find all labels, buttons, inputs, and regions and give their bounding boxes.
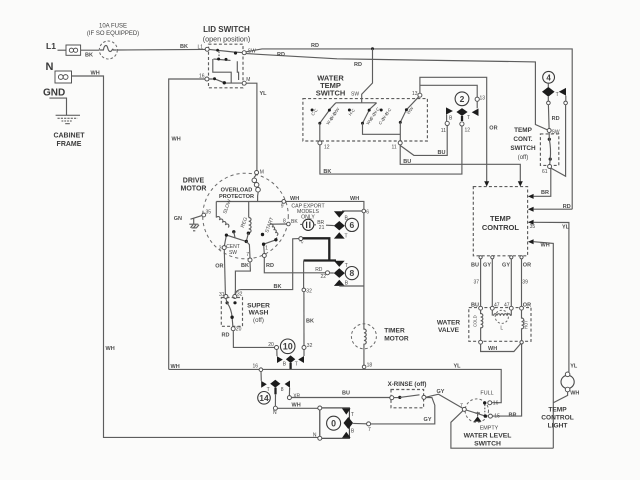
terminal 22 [326,271,330,275]
svg-text:18: 18 [367,362,373,368]
connector 8 circle [345,267,358,280]
svg-text:SWITCH: SWITCH [510,145,536,152]
svg-text:SWITCH: SWITCH [474,440,501,447]
x-rinse dashed enclosure [391,390,424,408]
svg-text:16: 16 [493,401,499,407]
reg winding end dot [247,232,250,235]
terminal 47 left [490,306,494,310]
svg-text:RD: RD [354,62,362,68]
svg-text:6: 6 [366,209,369,215]
connector 6 node circle [362,209,366,213]
node 32 circle [302,288,306,292]
svg-text:CONTROL: CONTROL [541,415,574,422]
connector 8 T flag [334,261,345,267]
svg-text:HOT: HOT [523,320,528,329]
wire L1 to fuse, BK [81,49,100,51]
hot solenoid coil [522,310,524,340]
svg-text:RD: RD [563,204,571,210]
wire lid SW lower run (RD) to temp cont switch [246,54,548,130]
svg-text:T: T [295,361,298,367]
svg-text:VALVE: VALVE [438,327,460,334]
svg-text:TEMP: TEMP [514,127,532,134]
wire switch3 to terminal 11 [399,122,401,141]
reg winding coil [249,217,251,232]
wire 1 to 22 (RD) [264,258,325,273]
lid switch dashed enclosure [209,44,244,88]
wire T flag down to 61 junction [551,96,566,177]
wire 35 to temp control light (YL) [534,222,569,372]
terminal 11 of connector 2 [445,121,449,125]
terminal at zero box bottom left [318,436,322,440]
svg-text:BK: BK [85,52,93,58]
cold solenoid coil [481,310,483,340]
svg-text:9: 9 [281,204,284,210]
svg-text:7: 7 [246,252,249,258]
junction dot [234,51,237,54]
svg-text:TEMP: TEMP [490,214,511,223]
svg-text:4: 4 [546,73,551,82]
wire lid SW to right side (RD) [246,49,572,209]
svg-text:WATER LEVEL: WATER LEVEL [464,432,512,439]
svg-text:OR: OR [489,126,497,132]
svg-text:T: T [345,234,348,240]
terminal at water valve hot [520,306,524,310]
connector 4 pin circles [547,101,551,105]
wire drop to water temp switch SW [362,49,373,103]
svg-text:GY: GY [483,263,491,269]
connector 0 B flag [342,432,351,438]
terminal 9 of drive motor [282,200,286,204]
svg-text:SWITCH: SWITCH [316,89,346,98]
svg-text:16: 16 [252,364,258,370]
svg-text:1: 1 [265,246,268,252]
svg-text:12: 12 [324,145,330,151]
terminal N [273,406,277,410]
contact dot 15 [484,414,487,417]
svg-text:GY: GY [437,389,445,395]
x-rinse blade [394,395,420,398]
connector 4 stem [547,83,549,87]
wire fuse to lid switch L1, BK [117,48,205,51]
svg-text:7: 7 [460,403,463,409]
svg-text:BK: BK [274,284,282,290]
svg-text:(open position): (open position) [203,35,251,44]
connector 14 stem to N [274,388,276,395]
empty diaphragm symbol [474,412,482,422]
svg-text:8: 8 [281,387,284,393]
connector 10 circle [280,339,295,354]
terminal 35 of drive motor [202,213,206,217]
svg-text:(IF SO EQUIPPED): (IF SO EQUIPPED) [87,31,139,37]
svg-text:WH: WH [541,243,550,249]
terminal 8 (cap lead) [287,222,291,226]
svg-text:L1: L1 [46,41,56,51]
svg-text:WATER: WATER [437,320,461,327]
connector 4 diamond [542,87,555,97]
temp control bottom terminal GY 1 [491,256,494,259]
svg-text:WH: WH [290,196,299,202]
node 16 on main bus [259,368,263,372]
super wash dashed enclosure [221,298,242,327]
svg-text:BK: BK [291,219,298,225]
terminal 47 right [509,306,513,310]
svg-text:TIMER: TIMER [384,328,405,335]
svg-text:GY: GY [502,263,510,269]
wire right flag to XR [288,388,290,396]
temp control right terminal WH [528,239,534,244]
svg-text:RD: RD [266,263,274,269]
connector 10 B flag [277,356,283,363]
slow winding coil [216,216,229,228]
terminal at zero box top left [318,406,322,410]
svg-text:35: 35 [530,224,536,230]
svg-text:CABINET: CABINET [53,133,85,140]
terminal 12 of water temp switch [318,141,322,145]
svg-text:11: 11 [441,128,446,134]
svg-text:BR: BR [509,412,517,418]
terminal 12 of connector 2 [460,122,464,126]
wire 15 to water valve (BR) [492,344,521,416]
svg-text:BU: BU [471,302,479,308]
contact dot H-C [348,109,351,112]
dashed link 16-15 [484,405,486,415]
wire 11 BU link (water temp 11 to connector 2) [400,126,447,156]
svg-text:BK: BK [241,263,249,269]
svg-text:SW: SW [351,92,359,98]
svg-text:WASH: WASH [249,310,269,317]
svg-text:GY: GY [424,417,432,423]
connector 2 stem to 12 [461,116,463,121]
connector 10 stem to bus [289,363,291,370]
switch 2 blade [363,110,370,123]
svg-text:GN: GN [174,216,182,222]
svg-text:47: 47 [494,302,500,308]
temp control right terminal RD [528,207,534,212]
wire diamond to SW of temp cont switch (RD) [547,97,550,129]
svg-text:OR: OR [523,263,531,269]
timer motor coil [364,324,366,365]
svg-text:RD: RD [315,267,323,273]
wire GY1 down [491,259,493,307]
svg-text:M: M [260,170,264,176]
connector 2 diamond [456,108,467,116]
svg-text:WH: WH [292,402,301,408]
wire B flag down to 11 [446,115,448,122]
wire L1 lead-in [58,49,67,51]
terminal 15 of water level switch [488,414,492,418]
slow winding end dot [232,230,235,233]
svg-text:8: 8 [283,218,286,224]
svg-text:YL: YL [570,364,578,370]
svg-text:SW: SW [229,250,237,256]
terminal 7 of zero connector [367,422,371,426]
svg-text:LIGHT: LIGHT [548,423,568,430]
start winding coil [270,223,278,235]
connector N plug (box with circles) [55,71,72,83]
connector L1 plug (box with circles) [66,45,81,55]
water valve center solenoid [492,310,511,331]
wire 2 down to super wash 32 (BK) [235,239,299,295]
connector 4 T flag [559,88,566,96]
centrifugal switch blade [224,232,248,246]
wire lid 16 down to main bus [169,79,205,369]
svg-text:0: 0 [331,418,336,428]
arrow into temp control top [484,181,489,186]
junction dot [216,49,219,52]
temp control dashed box [473,187,527,256]
terminal XR [287,396,291,400]
svg-text:L: L [500,326,503,332]
svg-text:WH: WH [106,346,115,352]
node 18 on main bus [362,365,366,369]
wire WH down right side [534,242,554,449]
water temp switch common bus [330,103,377,110]
wire GND [49,98,66,115]
temp cont switch dashed enclosure [540,134,558,166]
water temp switch dashed enclosure [303,99,428,141]
connector 8 diamond [334,268,345,278]
svg-text:OVERLOAD: OVERLOAD [221,188,253,194]
svg-text:DRIVE: DRIVE [183,178,205,185]
wire BR to 61 [534,169,551,197]
wire motor 3 to super wash 31 (OR) [224,250,225,295]
svg-text:WH: WH [350,196,359,202]
terminal 61 [548,165,552,169]
temp control right terminal BR [528,194,534,199]
terminal 7 of drive motor [248,258,252,262]
svg-text:37: 37 [473,279,479,285]
wire x-rinse to water level switch 7 (GY) [426,394,463,408]
wire 13 up and right (OR) into temp control [420,77,487,182]
connector 6 B flag [334,211,345,217]
svg-text:CONTROL: CONTROL [482,223,519,232]
terminal 2 of drive motor [299,237,303,241]
terminal M of drive motor [255,171,259,175]
svg-text:61: 61 [542,169,548,175]
svg-text:WH: WH [171,364,180,370]
water valve dashed box [469,308,531,342]
svg-text:21: 21 [319,225,325,231]
wire GN to terminal 35 [191,216,202,220]
connector 10 T leg [303,350,305,357]
svg-text:YL: YL [260,91,268,97]
svg-text:N: N [46,61,54,73]
svg-text:SW: SW [552,130,560,136]
svg-text:SUPER: SUPER [247,303,270,310]
svg-text:X-RINSE (off): X-RINSE (off) [388,381,427,388]
wire OR down to hot valve [521,259,523,307]
svg-text:8: 8 [350,268,355,278]
wire N down left side to bottom bus [72,76,319,437]
switch 3 blade [400,97,418,123]
svg-text:GND: GND [43,88,65,99]
svg-text:COLD: COLD [472,315,477,327]
x-rinse left terminal [390,396,394,400]
thick bar terminal 2 to T flag 6 [303,238,336,260]
svg-text:N: N [313,433,317,439]
drive motor dashed circle [203,173,289,259]
wire 11 BU to temp control [400,145,520,182]
terminal water valve bottom left [479,340,483,344]
wire BU to water valve cold [480,259,482,307]
svg-text:XR: XR [293,393,300,399]
svg-text:OR: OR [215,263,223,269]
lid switch middle contacts [214,59,231,60]
svg-text:(off): (off) [253,317,264,324]
arrow into temp control top [518,181,523,186]
terminal 16 of water level switch [488,401,492,405]
wire node 32 down to connector 10 (BK) [303,292,305,345]
lid switch top contact run [209,49,242,52]
junction dot on RD wire [371,47,374,50]
connector 14 circle [258,392,271,405]
connector 2 T flag [472,109,479,117]
terminal 3 of drive motor [222,246,226,250]
terminal 13 of water temp switch [418,93,422,97]
wire 7 to x-rinse (GY) [371,398,435,424]
svg-text:BU: BU [403,159,411,165]
lid switch linkage (dashed) [218,52,220,58]
wire thick bar down to node 32 [303,261,305,289]
terminal SW of lid switch [242,51,246,55]
svg-text:WH: WH [570,390,579,396]
wire XR to x-rinse (BU) [291,397,389,399]
connector 10 B leg [276,350,278,357]
water level switch blade [466,410,485,416]
wire water valve common (WH) [481,344,521,352]
svg-text:2: 2 [460,94,465,104]
svg-text:M: M [246,77,250,83]
wire N to zero box (WH) [277,407,317,409]
svg-text:6: 6 [350,220,355,230]
svg-text:BR: BR [541,190,549,196]
svg-text:(off): (off) [518,155,529,161]
svg-text:MOTOR: MOTOR [181,186,207,193]
wire 7 to cent switch [246,241,250,258]
svg-text:N: N [273,410,277,416]
fuse 10A (dashed circle with element) [99,41,117,59]
svg-text:20: 20 [236,327,242,333]
svg-text:T: T [351,412,354,418]
terminal 11 of water temp switch [398,141,402,145]
svg-text:WH: WH [172,137,181,143]
ground cabinet frame symbol (hatched) [56,115,80,123]
svg-text:FULL: FULL [480,390,493,396]
svg-text:14: 14 [259,393,269,403]
main bus (WH/YL) [169,369,502,402]
terminal 31 of super wash [224,295,228,299]
wire 22 to diamond 8 [330,272,334,274]
node water valve bottom right [520,341,523,344]
connector 8 B flag [334,280,345,286]
terminal 13 circle at connector 2 [475,97,479,101]
contact dot spare [380,109,383,112]
connector 6 diamond [334,221,345,230]
svg-text:BU: BU [342,391,350,397]
start switch [264,237,277,253]
wire M to drive motor, YL [246,83,257,170]
svg-text:EMPTY: EMPTY [480,426,499,432]
timer motor dashed circle [351,324,376,349]
wire B flag 8 to right vertical [339,285,364,287]
wire GY2 down [510,259,512,307]
connector 0 T flag [342,409,351,415]
svg-text:BK: BK [306,319,314,325]
svg-text:32: 32 [306,288,312,294]
terminal M of lid switch [242,81,246,85]
svg-text:RD: RD [311,43,319,49]
svg-text:3: 3 [219,246,222,252]
svg-text:YL: YL [562,225,570,231]
contact dot C-C [311,109,314,112]
svg-text:32: 32 [237,291,243,297]
svg-text:22: 22 [321,274,327,280]
connector 14 left flag [261,381,267,388]
zero connector box [320,408,350,438]
wire node 16 to connector 14 [260,372,262,381]
connector 0 circle [327,416,341,430]
wire T flag up to 13 [476,101,478,108]
svg-text:BK: BK [323,169,331,175]
svg-text:FRAME: FRAME [57,141,82,148]
svg-text:PROTECTOR: PROTECTOR [219,194,254,200]
svg-text:CONT.: CONT. [513,136,532,143]
contact dot 16 [483,401,486,404]
svg-text:T: T [467,115,470,121]
svg-text:11: 11 [392,145,397,151]
wire motor 7 down to super wash 32 (BK) [235,262,250,295]
switch 1 blade [320,110,330,123]
temp control bottom terminal GY 2 [510,256,513,259]
temp control right terminal 35 [528,220,534,225]
super wash contacts [226,301,229,304]
lid switch internal links [213,59,239,83]
svg-text:13: 13 [480,96,486,102]
temp control bottom terminal BU [479,256,482,259]
terminal 7 of water level switch [462,407,466,411]
svg-text:OR: OR [523,302,531,308]
terminal at water valve cold [479,306,483,310]
connector 14 right flag [285,381,290,388]
wire RD to right vertical [534,208,573,210]
temp control light bulb [561,372,574,392]
svg-text:LID SWITCH: LID SWITCH [203,25,250,34]
terminal L1 of lid switch [205,47,209,51]
svg-text:13: 13 [412,91,418,97]
wire water level switch common to bottom bus [451,411,553,448]
wire node to B flag of 6 [342,210,362,212]
slow winding stub [215,202,217,218]
wire 12 BK to connector 2 [320,126,462,174]
connector 4 circle [543,71,555,83]
x-rinse contact dot [398,396,401,399]
svg-text:WH: WH [488,346,497,352]
connector 0 diamond [344,417,354,429]
terminal 32 of connector 10 [302,346,306,350]
capacitor (circle with plates) [300,219,316,230]
wire diamond to terminal 7 [353,422,367,424]
water level switch dashed circle [465,399,488,422]
wire bulb bottom to WH vertical [553,392,567,403]
vertical wire right of 6/8 down to timer [363,213,365,324]
connector 14 diamond [270,380,280,388]
svg-text:20: 20 [268,342,274,348]
wire switch2 to terminal 11 link [363,123,401,134]
connector 2 B flag [446,107,453,114]
ground symbol at motor [189,218,199,231]
motor internal supply bus / WH wire to right [216,201,364,209]
svg-text:BK: BK [180,44,188,50]
